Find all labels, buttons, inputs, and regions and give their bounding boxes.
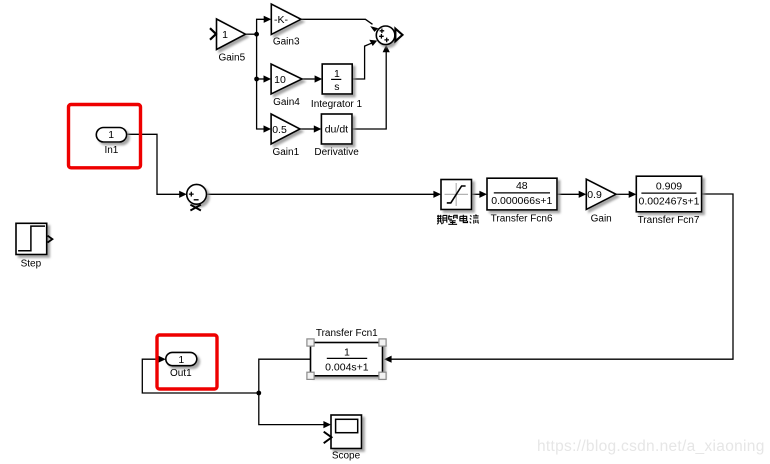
svg-text:Integrator 1: Integrator 1	[311, 99, 363, 110]
saturation block 期望电流	[441, 180, 472, 210]
wire arrowhead into Derivative	[314, 125, 322, 132]
svg-text:1: 1	[344, 347, 350, 359]
wire trunk down to Gain4 and Gain1	[257, 34, 264, 129]
red highlight rectangle around Out1	[157, 335, 217, 389]
sum block sum1 (+-)	[187, 184, 207, 204]
wire arrowhead into sum2 input 2	[369, 40, 377, 46]
svg-text:0.002467s+1: 0.002467s+1	[638, 195, 699, 207]
svg-text:0.9: 0.9	[587, 189, 602, 201]
wire branch to Gain4 input	[257, 78, 264, 80]
wire arrowhead into Transfer Fcn1 (pointing left)	[384, 356, 392, 363]
transfer function block Transfer Fcn7	[636, 176, 701, 212]
gain Gain4	[271, 64, 302, 94]
red highlight rectangle around In1	[69, 105, 141, 168]
gain Gain3	[271, 4, 301, 35]
svg-text:Transfer Fcn7: Transfer Fcn7	[638, 215, 700, 226]
wire sum1 output to saturation block	[207, 193, 434, 195]
wire arrowhead into sum2 input 1	[370, 26, 378, 32]
wire arrowhead into Gain3	[264, 16, 272, 23]
inport In1	[96, 128, 126, 143]
wire saturation output to Transfer Fcn6	[472, 193, 480, 195]
node junction at Gain4 branch	[254, 77, 259, 82]
port unconnected input of Gain5	[210, 28, 216, 40]
selection handle bottom-left of Transfer Fcn1	[307, 372, 314, 379]
node branch junction after Gain5	[254, 32, 259, 37]
svg-text:0.909: 0.909	[656, 181, 682, 193]
gain Gain1	[271, 114, 300, 144]
sum2 plus sign 1	[380, 29, 385, 34]
transfer function block Transfer Fcn6	[487, 178, 557, 210]
wire Gain1 output to Derivative	[300, 128, 314, 130]
svg-text:Gain3: Gain3	[273, 36, 300, 47]
derivative block Derivative	[321, 114, 352, 144]
svg-text:1: 1	[178, 354, 184, 366]
gain Gain5	[217, 19, 246, 50]
wire Transfer Fcn6 output to Gain	[557, 193, 579, 195]
svg-text:10: 10	[274, 74, 286, 86]
svg-text:https://blog.csdn.net/a_xiaoni: https://blog.csdn.net/a_xiaoning	[537, 438, 765, 455]
wire arrowhead into Gain1	[264, 125, 272, 132]
svg-text:-K-: -K-	[274, 14, 289, 26]
outport Out1	[166, 352, 197, 365]
wire trunk up to Gain3 input	[257, 19, 265, 34]
wire bus to Out1	[142, 359, 258, 393]
svg-text:1: 1	[222, 29, 228, 41]
selection handle bottom-right of Transfer Fcn1	[379, 372, 386, 379]
svg-text:1: 1	[108, 129, 114, 141]
wire arrowhead into saturation block	[433, 191, 441, 198]
svg-text:Gain: Gain	[591, 213, 612, 224]
svg-text:Derivative: Derivative	[314, 147, 359, 158]
wire Gain4 output to Integrator1	[302, 78, 315, 80]
step icon	[18, 226, 45, 251]
scope screen	[336, 419, 358, 432]
wire Gain5 output to branch trunk	[246, 33, 257, 35]
port unconnected second input of Scope	[324, 432, 333, 444]
wire arrowhead into Gain4	[264, 75, 272, 82]
wire Derivative output up to sum2 bottom input	[352, 52, 386, 129]
svg-text:Transfer Fcn1: Transfer Fcn1	[316, 328, 378, 339]
svg-text:s: s	[334, 81, 339, 93]
scope block Scope	[331, 415, 362, 449]
saturation icon axes	[445, 183, 469, 206]
selection handle top-right of Transfer Fcn1	[379, 339, 386, 346]
svg-text:0.004s+1: 0.004s+1	[325, 361, 369, 373]
wire arrowhead into Transfer Fcn7	[629, 191, 637, 198]
port unconnected output of sum2	[395, 29, 402, 42]
wire Gain3 output to sum2 first input	[301, 19, 373, 24]
svg-text:Scope: Scope	[332, 450, 361, 461]
svg-text:1: 1	[334, 68, 340, 80]
wire arrowhead into Transfer Fcn6	[479, 191, 487, 198]
wire arrowhead into Gain	[579, 191, 587, 198]
saturation icon curve	[447, 186, 466, 203]
svg-text:Gain5: Gain5	[218, 53, 245, 64]
svg-text:Step: Step	[21, 258, 42, 269]
wire arrowhead into Scope	[323, 421, 331, 428]
wire arrowhead into sum2 bottom input	[383, 45, 390, 53]
svg-text:0.5: 0.5	[272, 124, 287, 136]
wire Gain output to Transfer Fcn7	[616, 193, 629, 195]
svg-text:du/dt: du/dt	[325, 124, 348, 136]
svg-text:Transfer Fcn6: Transfer Fcn6	[491, 214, 553, 225]
sum2 plus sign 2	[379, 34, 384, 39]
wire Transfer Fcn1 output to lower bus and Scope	[259, 359, 324, 424]
wire Transfer Fcn7 output feedback down to Transfer Fcn1	[391, 194, 733, 359]
port unconnected output of Step	[48, 236, 53, 243]
wire arrowhead into sum1	[179, 191, 187, 198]
step source block Step	[16, 223, 47, 254]
node junction on lower bus	[256, 391, 261, 396]
sum1 minus sign	[194, 199, 199, 201]
label 期望电流 (drawn strokes)	[437, 215, 479, 225]
svg-text:Gain1: Gain1	[272, 147, 299, 158]
svg-text:Out1: Out1	[170, 368, 192, 379]
svg-text:Gain4: Gain4	[273, 97, 300, 108]
selection handle top-left of Transfer Fcn1	[307, 339, 314, 346]
sum1 plus sign	[189, 192, 194, 197]
wire arrowhead into Integrator1	[315, 75, 323, 82]
svg-text:0.000066s+1: 0.000066s+1	[491, 195, 552, 207]
port unconnected bottom input of sum1	[190, 205, 201, 211]
gain Gain	[586, 179, 616, 209]
sum2 plus sign 3	[384, 38, 389, 43]
integrator Integrator 1	[322, 64, 352, 94]
wire arrowhead into Out1	[158, 356, 166, 363]
svg-text:48: 48	[516, 180, 528, 192]
transfer function block Transfer Fcn1 (mirrored, selected)	[311, 343, 383, 376]
sum block sum2 (+++)	[376, 26, 395, 45]
svg-text:In1: In1	[104, 145, 118, 156]
wire Integrator1 output up to sum2 second input	[352, 43, 371, 79]
wire In1 output down to sum1	[127, 134, 180, 194]
